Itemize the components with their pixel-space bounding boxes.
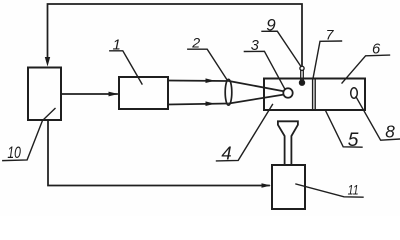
label 2 leader (188, 49, 228, 80)
lens (component 2) (225, 79, 232, 105)
wire: converging beam lower (lens to focus circle) (229, 95, 283, 104)
wire: top feedback line from box 10 up, across, down to probe 9 (48, 4, 303, 65)
divider / window 7 (double line) (312, 79, 314, 111)
wire: lower beam from box 1 to lens, arrowhead (168, 104, 227, 105)
chamber body (components 5/6/7 region) (264, 79, 365, 111)
svg-text:10: 10 (7, 143, 21, 162)
label 5 leader (326, 111, 363, 148)
box 10 (28, 68, 61, 121)
svg-text:1: 1 (113, 36, 121, 53)
focus circle (component 3) (283, 88, 292, 97)
label 3 leader (244, 51, 285, 89)
box 11 (272, 165, 305, 209)
wire: arrowhead down into box 10 (45, 57, 50, 67)
wire: converging beam upper (lens to focus circle) (229, 81, 283, 91)
svg-text:5: 5 (348, 130, 359, 151)
label 9 leader (262, 31, 301, 66)
label 1 leader (110, 51, 142, 84)
box 1 (119, 77, 168, 109)
svg-text:3: 3 (251, 38, 259, 54)
probe 9: tube walls (300, 70, 302, 81)
svg-text:6: 6 (372, 42, 381, 58)
probe 9: bottom ball (filled) (299, 80, 304, 85)
svg-text:7: 7 (326, 26, 335, 42)
wire: box 10 to box 1 with arrowhead (61, 93, 117, 95)
label 10 leader (3, 109, 55, 161)
svg-text:9: 9 (266, 16, 276, 35)
label 4 leader (217, 105, 273, 161)
svg-text:11: 11 (348, 181, 359, 197)
label 6 leader (342, 55, 390, 83)
funnel / horn above box 11 (278, 121, 298, 164)
wire: upper beam from box 1 to lens, arrowhead (168, 80, 227, 83)
svg-text:8: 8 (385, 121, 395, 141)
wire: box 10 bottom down and right into box 11, arrowhead (48, 120, 269, 186)
svg-text:4: 4 (221, 142, 231, 163)
label 8 leader (356, 97, 400, 140)
label 11 leader (296, 184, 363, 197)
svg-text:2: 2 (191, 36, 200, 52)
ellipse component 8 (351, 88, 358, 99)
probe 9: top small circle (300, 66, 304, 70)
label 7 leader (313, 41, 342, 79)
